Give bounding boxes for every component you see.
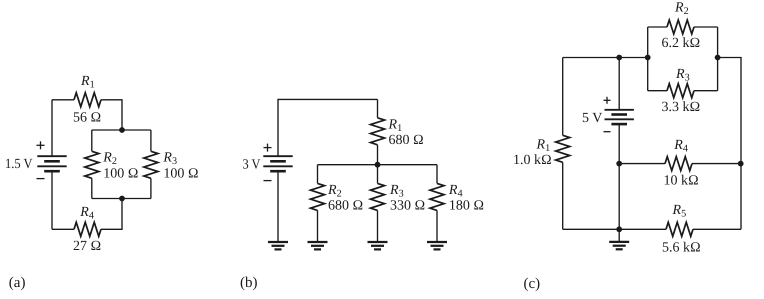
wire R4b bottom lead <box>436 210 438 241</box>
resistor R3 (b) <box>371 183 385 210</box>
svg-text:1.5 V: 1.5 V <box>5 157 33 172</box>
wire top-left circuit a <box>52 99 74 101</box>
ground battery b <box>268 242 288 249</box>
svg-text:5.6 kΩ: 5.6 kΩ <box>662 240 701 255</box>
svg-text:180 Ω: 180 Ω <box>449 198 484 213</box>
svg-text:680 Ω: 680 Ω <box>328 198 363 213</box>
svg-text:R2: R2 <box>674 1 689 18</box>
battery plus sign c <box>604 97 611 104</box>
svg-text:R4: R4 <box>79 205 94 222</box>
wire R2b bottom lead <box>317 210 319 241</box>
battery plus sign b <box>264 144 272 152</box>
ground R3 b <box>368 242 388 249</box>
wire R3b top lead <box>377 165 379 184</box>
svg-text:27 Ω: 27 Ω <box>73 239 101 254</box>
wire parallel bottom rail a <box>92 198 151 200</box>
node rail b <box>375 162 381 168</box>
wire R1b top lead <box>377 99 379 117</box>
wire R2 bottom lead <box>91 178 93 198</box>
wire battery b bottom <box>277 171 279 241</box>
ground R2 b <box>308 242 328 249</box>
wire R3 bottom lead <box>150 178 152 198</box>
wire R4c left lead <box>619 163 665 165</box>
wire R5 row left c <box>563 228 666 230</box>
wire right rail c <box>718 58 741 230</box>
wire R2 top lead <box>91 130 93 151</box>
resistor R5 (c) <box>666 222 693 236</box>
resistor R2 (b) <box>311 183 325 210</box>
svg-text:1.0 kΩ: 1.0 kΩ <box>513 153 552 168</box>
svg-text:R2: R2 <box>327 183 342 200</box>
wire left rail bottom a <box>51 100 53 156</box>
svg-text:(a): (a) <box>9 275 26 291</box>
battery B3 5V <box>605 110 634 124</box>
svg-text:3 V: 3 V <box>243 158 261 173</box>
svg-text:R3: R3 <box>162 150 177 167</box>
svg-text:100 Ω: 100 Ω <box>103 166 138 181</box>
svg-text:R3: R3 <box>675 67 690 84</box>
wire R2b top lead <box>317 165 319 184</box>
svg-text:R1: R1 <box>536 137 551 154</box>
wire R3b bottom lead <box>377 210 379 241</box>
battery minus sign b <box>264 180 272 182</box>
battery minus sign a <box>37 178 45 180</box>
svg-text:10 kΩ: 10 kΩ <box>664 174 699 189</box>
resistor R4 (b) <box>430 183 444 210</box>
wire battery bottom to R4 row <box>618 124 620 163</box>
ground circuit c <box>609 242 629 249</box>
node battery top c <box>616 55 622 61</box>
svg-text:(c): (c) <box>524 276 541 292</box>
node parallel right c <box>715 55 721 61</box>
resistor R2 (c) <box>667 20 694 34</box>
wire R1 to node <box>101 100 122 130</box>
resistor R3 <box>144 151 158 178</box>
svg-text:330 Ω: 330 Ω <box>390 198 425 213</box>
wire R2c left lead <box>648 26 667 28</box>
svg-text:R2: R2 <box>102 150 117 167</box>
battery B1 1.5V <box>37 156 66 171</box>
wire parallel top rail a <box>92 129 151 131</box>
wire R1b bottom lead <box>377 145 379 165</box>
resistor R4 (c) <box>665 157 692 171</box>
ground R4 b <box>427 242 447 249</box>
battery minus sign c <box>604 131 611 133</box>
wire R4c right lead <box>692 163 741 165</box>
svg-text:R3: R3 <box>389 183 404 200</box>
resistor R1 (b) <box>371 118 385 145</box>
svg-text:3.3 kΩ: 3.3 kΩ <box>662 100 701 115</box>
svg-text:(b): (b) <box>240 275 258 291</box>
resistor R2 <box>85 151 99 178</box>
wire R3c left lead <box>648 90 667 92</box>
resistor R1 (c) <box>556 135 570 162</box>
node ground junction c <box>616 226 622 232</box>
svg-text:56 Ω: 56 Ω <box>73 111 101 126</box>
wire mid branch c <box>618 164 620 230</box>
svg-text:R1: R1 <box>80 74 95 91</box>
svg-text:R4: R4 <box>448 183 463 200</box>
wire battery branch top c <box>618 58 620 110</box>
resistor R1 <box>74 93 101 107</box>
svg-text:680 Ω: 680 Ω <box>389 133 424 148</box>
wire parallel left side c <box>647 27 649 91</box>
wire rail circuit b <box>318 164 438 166</box>
node bottom of parallel a <box>119 196 125 202</box>
wire node to R4 <box>101 199 122 230</box>
svg-text:R1: R1 <box>388 118 403 135</box>
svg-text:R4: R4 <box>673 138 688 155</box>
wire R3c right lead <box>694 90 718 92</box>
wire left rail top c <box>562 58 564 136</box>
battery plus sign a <box>37 141 45 149</box>
wire R5c right lead <box>693 228 741 230</box>
svg-text:100 Ω: 100 Ω <box>163 166 198 181</box>
wire parallel right side c <box>717 27 719 91</box>
wire left rail bottom c <box>562 162 564 229</box>
svg-text:6.2 kΩ: 6.2 kΩ <box>662 36 701 51</box>
wire ground stub c <box>618 229 620 241</box>
wire top rail circuit c <box>563 57 648 59</box>
node parallel left c <box>645 55 651 61</box>
resistor R3 (c) <box>667 84 694 98</box>
battery B2 3V <box>263 156 292 171</box>
wire left rail top a <box>51 171 53 229</box>
node R4 row right c <box>738 161 744 167</box>
svg-text:R5: R5 <box>672 203 687 220</box>
wire battery to R1 circuit b <box>278 99 378 155</box>
node top of parallel a <box>119 127 125 133</box>
svg-text:5 V: 5 V <box>582 111 602 126</box>
resistor R4 <box>74 222 101 236</box>
wire R2c right lead <box>694 26 718 28</box>
wire R4 to left rail <box>52 228 74 230</box>
wire R4b top lead <box>436 165 438 184</box>
wire R3 top lead <box>150 130 152 151</box>
node R4 row left c <box>616 161 622 167</box>
